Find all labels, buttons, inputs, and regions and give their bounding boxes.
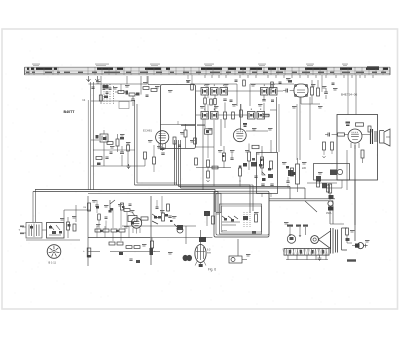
resistor R25	[338, 133, 345, 136]
resistor R13	[311, 87, 314, 95]
wire left col x203	[202, 119, 204, 190]
resistor R30	[162, 213, 165, 221]
svg-text:B 1-11: B 1-11	[49, 261, 57, 265]
IF transformer T9	[248, 112, 256, 120]
wire x162	[161, 196, 163, 213]
wire det h	[196, 167, 231, 169]
resistor R15	[223, 153, 226, 161]
capacitor C8	[324, 92, 328, 94]
resistor R4	[127, 145, 130, 151]
wire far link	[290, 187, 305, 200]
capacitor C1	[91, 87, 94, 88]
resistor R34	[150, 241, 153, 248]
wires V2	[301, 95, 320, 104]
resistor R37	[346, 228, 349, 235]
wire stair A4	[179, 186, 291, 188]
resistor R1	[118, 91, 124, 94]
antenna arrows	[87, 76, 91, 82]
coil L4	[330, 170, 337, 176]
wire stair B1	[35, 190, 215, 213]
wire if row2 link	[196, 114, 201, 116]
resistor R31	[212, 216, 215, 224]
speaker frame bars	[331, 228, 338, 254]
capacitor C22	[271, 100, 274, 101]
IF transformer T3	[211, 88, 219, 96]
IF transformer T8	[211, 112, 219, 120]
socket pins dashed	[244, 212, 250, 228]
bus conductor segments row1	[27, 68, 388, 70]
resistor R17	[261, 157, 264, 165]
wires AF	[88, 196, 160, 266]
resistor R28	[255, 214, 258, 222]
resistor R18	[261, 159, 264, 168]
output transformer T11	[371, 129, 373, 144]
wire stair A2	[137, 182, 177, 184]
accent lowleft	[30, 226, 33, 229]
svg-text:1M: 1M	[83, 207, 86, 209]
blob det2	[243, 163, 247, 167]
label B7368	[347, 259, 356, 261]
wire bus band outline	[25, 67, 391, 75]
tube V5	[131, 218, 141, 228]
resistor R3	[116, 139, 119, 146]
parts x270 top	[271, 82, 274, 88]
resistor R39	[124, 209, 130, 212]
cap C14	[95, 205, 98, 207]
resistor R14	[317, 88, 320, 96]
resistor R6	[144, 152, 147, 159]
panel box inner2	[222, 206, 262, 232]
wire x322 drop	[321, 75, 323, 92]
resistor R9	[204, 98, 207, 104]
blob mixer2	[103, 137, 107, 140]
resistor R43	[210, 99, 213, 105]
capacitor C12	[328, 133, 330, 137]
wire right col x276	[276, 97, 278, 152]
parts x186	[187, 81, 190, 82]
wire stair A5	[181, 187, 306, 189]
IF transformer T2	[201, 88, 209, 96]
resistor R24	[361, 150, 364, 158]
wire stair B3	[88, 194, 221, 214]
resistor R22	[356, 123, 364, 126]
tube V4 label dots	[346, 122, 351, 124]
resistor R42	[207, 171, 210, 178]
wire v x208	[207, 95, 209, 98]
wire top link	[64, 209, 90, 211]
lamp LA2	[328, 201, 333, 206]
resistor R26	[323, 142, 326, 150]
ground G1	[127, 164, 131, 169]
wires mixer	[88, 100, 145, 190]
socket spokes	[49, 246, 60, 257]
wire bottom long	[88, 237, 213, 239]
resistor R36	[73, 224, 76, 231]
wire into box	[148, 84, 161, 86]
coil L1	[99, 95, 102, 101]
capacitor C20	[254, 176, 257, 177]
pot box	[128, 216, 137, 222]
accent det	[222, 155, 225, 157]
tube V2 pins	[294, 84, 296, 86]
capacitor C4	[120, 152, 124, 154]
bus tap ticks	[29, 67, 383, 75]
resistor R19	[270, 161, 273, 169]
capacitor C6	[262, 100, 265, 101]
resistor R38	[98, 214, 101, 220]
parts x143	[143, 87, 149, 90]
resistor row RA	[95, 229, 125, 232]
blob af	[119, 252, 123, 255]
capacitor C23	[110, 152, 113, 153]
small blob top-right	[288, 80, 292, 83]
wire if row link	[196, 90, 201, 92]
parts bottom AF	[183, 255, 188, 261]
lamp wires	[347, 235, 352, 243]
wire output drop	[354, 180, 356, 241]
wire right col	[341, 180, 343, 188]
wire x356 top	[355, 75, 357, 115]
svg-text:gram: gram	[222, 229, 227, 232]
resistor R16	[247, 152, 250, 161]
svg-text:Fig. 6: Fig. 6	[208, 268, 216, 272]
IF transformer T5	[261, 88, 269, 96]
capacitor C7	[286, 89, 288, 93]
wire panel to chassis B	[269, 200, 333, 202]
IF transformer T7	[201, 112, 209, 120]
shield box K1	[161, 85, 196, 149]
tube V4 pins	[351, 143, 359, 149]
diode D1	[262, 172, 265, 175]
wire panel to chassis A	[269, 198, 335, 200]
wire af verts	[99, 208, 127, 229]
wire drop mid band	[175, 140, 181, 188]
resistor R35	[67, 222, 70, 230]
tube V3	[233, 129, 246, 142]
resistor R2	[129, 93, 135, 96]
svg-text:220: 220	[302, 167, 307, 170]
tube V6 pins	[195, 262, 206, 267]
resistor row RB	[109, 242, 123, 245]
wire drop left pair	[134, 100, 136, 185]
panel box inner	[220, 204, 262, 234]
capacitor C19	[230, 158, 233, 159]
bus drop stubs	[205, 75, 373, 78]
speaker SP1	[380, 131, 385, 144]
wire v3 top	[240, 104, 242, 131]
capacitor C9	[239, 168, 242, 176]
panel box outer2	[216, 193, 269, 235]
wire phono drop	[237, 239, 239, 256]
component box det	[252, 145, 259, 148]
tube V5 pin	[133, 228, 140, 234]
wire under k3	[307, 182, 337, 184]
resistor R47	[167, 204, 170, 211]
phono box	[229, 256, 242, 263]
svg-text:ECH81: ECH81	[143, 129, 152, 133]
electrolytic C16	[150, 248, 154, 255]
terminal strip cells	[283, 249, 328, 256]
bus wire name labels	[32, 64, 348, 66]
parts x232 top	[235, 80, 238, 81]
resistor R11	[224, 112, 227, 119]
tube V4	[348, 129, 362, 143]
bus conductor segments row2	[26, 72, 386, 73]
wire right step	[305, 201, 317, 212]
wires output	[344, 135, 371, 226]
osc coil T1	[100, 134, 108, 142]
cluster wires	[26, 239, 80, 241]
bus right label 70067B	[367, 66, 379, 69]
wire right col x300	[299, 97, 301, 160]
svg-text:B4E734–06: B4E734–06	[341, 93, 357, 97]
pilot lamp LA1	[357, 243, 363, 249]
resistor R27	[331, 142, 334, 150]
mains transformer T12	[26, 223, 42, 239]
node dots col	[89, 76, 148, 190]
svg-text:150A: 150A	[326, 212, 332, 215]
transistor blob	[96, 135, 99, 139]
accent k2	[259, 164, 262, 167]
wire stair A1	[135, 184, 251, 186]
wire vol	[122, 225, 196, 227]
parts x330 top	[332, 83, 335, 84]
output box K3	[337, 115, 378, 181]
micro value labels	[60, 78, 370, 256]
resistor R10	[214, 99, 217, 105]
selector box	[47, 223, 65, 239]
svg-text:+: +	[83, 249, 85, 253]
strip legs	[288, 255, 326, 260]
IF transformer T10	[257, 112, 265, 120]
speaker magnet	[311, 236, 319, 244]
tube V1 pins	[159, 143, 166, 151]
chassis labels	[287, 225, 293, 227]
resistor R33	[121, 203, 124, 210]
wire upper-left link	[126, 76, 128, 84]
resistor R40	[134, 246, 140, 249]
switch S2 blob	[177, 225, 183, 230]
wire stair B2	[33, 192, 218, 213]
resistor R44	[240, 110, 243, 117]
switch S3	[110, 200, 115, 212]
capacitor C3	[131, 99, 135, 101]
tuning gang dashed links	[104, 84, 114, 104]
terminal strip	[284, 249, 329, 256]
accent af1	[96, 206, 99, 209]
paper texture	[5, 33, 390, 304]
capacitor C21	[230, 100, 233, 101]
jack J1	[204, 211, 210, 216]
resistor R8	[194, 138, 197, 144]
tube V6 top wire	[200, 230, 202, 246]
resistor R21	[327, 185, 330, 192]
tube V1	[156, 131, 169, 144]
IF wires	[205, 95, 264, 128]
capacitor C24	[156, 207, 159, 208]
accent disc	[292, 172, 296, 175]
accent af2	[100, 230, 103, 232]
wire col x221	[220, 119, 222, 146]
tube V6	[195, 245, 206, 263]
wire k2 top	[261, 146, 263, 153]
resistor R32	[88, 203, 91, 211]
trimmer C2	[103, 88, 106, 89]
panel box outer	[214, 191, 269, 237]
coil L2	[288, 170, 293, 176]
coil L3	[316, 176, 321, 182]
cap C13	[168, 216, 171, 218]
IF transformer T4	[220, 88, 228, 96]
capacitor C5	[223, 99, 226, 100]
wire x310 drop	[309, 97, 311, 140]
wire det drop	[239, 180, 241, 187]
accent pot	[154, 216, 157, 219]
capacitor C10	[261, 184, 264, 186]
chassis label arrows	[290, 227, 306, 236]
wire right drops	[250, 185, 253, 213]
resistor R12	[263, 114, 269, 117]
filter box K4	[314, 164, 350, 181]
bracket right	[342, 228, 348, 250]
wire disc drop	[261, 193, 263, 197]
svg-text:B40TT: B40TT	[64, 110, 76, 114]
parts under K4	[317, 181, 320, 187]
ratio det box K2	[257, 153, 278, 194]
capacitor C17	[105, 217, 108, 218]
component R23	[368, 126, 371, 132]
wire stair A3	[177, 184, 254, 186]
tube socket B1	[47, 245, 61, 259]
IF transformer T6	[270, 88, 278, 96]
wire left drop	[32, 192, 34, 223]
switch S1	[152, 214, 158, 224]
resistor R29	[141, 217, 148, 220]
speaker cone	[318, 231, 330, 249]
electrolytic C15	[87, 248, 91, 257]
capacitor C18	[129, 204, 132, 205]
tube V2 envelope	[294, 84, 308, 97]
resistor R7	[184, 130, 187, 137]
det blob	[251, 162, 257, 167]
resistor R5	[153, 157, 156, 164]
resistor R41	[212, 166, 218, 169]
small parts under mixer	[96, 157, 102, 160]
resistor R45	[232, 112, 235, 119]
jack contacts	[222, 216, 238, 219]
valve on strip	[287, 235, 295, 243]
tube V3 dots	[243, 123, 247, 125]
components below V1	[161, 153, 164, 154]
wire det x216	[213, 120, 215, 186]
svg-text:mm: mm	[207, 252, 211, 255]
pot arrow	[174, 224, 179, 229]
wire k4 drop	[329, 207, 331, 224]
wire x348 top	[347, 75, 349, 115]
resistor R46	[107, 142, 113, 145]
cap C11	[286, 181, 289, 182]
resistor R20	[296, 164, 300, 184]
